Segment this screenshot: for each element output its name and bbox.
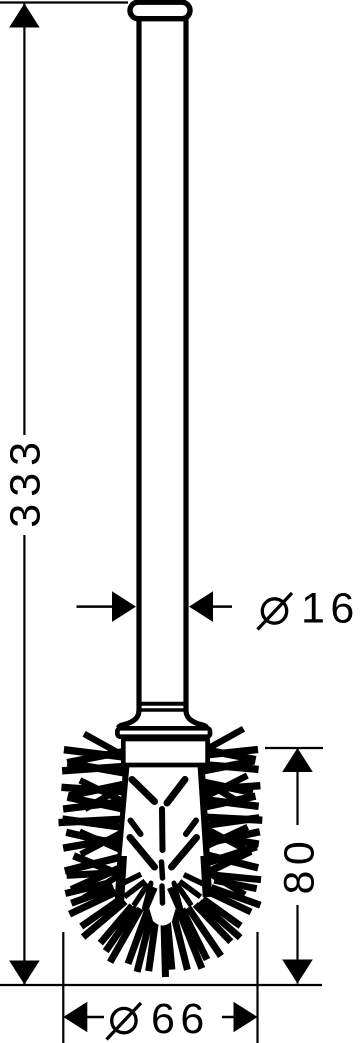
svg-text:80: 80 [276,836,324,895]
svg-text:333: 333 [2,435,50,528]
svg-text:66: 66 [151,995,210,1043]
svg-text:16: 16 [301,585,360,633]
